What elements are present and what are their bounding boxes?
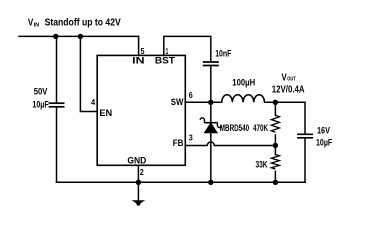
svg-text:OUT: OUT <box>287 77 296 83</box>
capacitor C3 16V 10uF output <box>297 134 313 138</box>
svg-text:IN: IN <box>34 23 40 29</box>
wire output cap bottom lead <box>304 138 306 182</box>
wire 33K top lead <box>274 146 276 155</box>
wire 33K bottom lead <box>274 171 276 182</box>
wire input cap bottom lead to ground rail <box>56 107 58 182</box>
node junction dot VIN-cap <box>53 34 58 39</box>
node junction dot divider bottom rail <box>273 180 278 185</box>
node junction dot VOUT <box>273 100 278 105</box>
svg-text:100µH: 100µH <box>232 78 255 89</box>
node junction dot FB divider <box>273 143 278 148</box>
svg-text:V: V <box>282 72 287 83</box>
svg-text:16V: 16V <box>317 125 330 136</box>
svg-text:470K: 470K <box>253 122 268 133</box>
wire 470K top lead <box>274 102 276 115</box>
wire diode branch SW to ground rail <box>210 102 212 182</box>
svg-text:10µF: 10µF <box>316 137 332 148</box>
wire FB line with hop over diode branch <box>185 142 275 146</box>
svg-text:10nF: 10nF <box>215 48 231 59</box>
wire 10nF top lead <box>210 36 212 61</box>
wire EN branch <box>80 36 97 111</box>
svg-text:EN: EN <box>99 107 112 118</box>
svg-text:10µF: 10µF <box>32 99 48 110</box>
node junction dot diode anode rail <box>208 180 213 185</box>
svg-text:MBRD540: MBRD540 <box>220 123 249 133</box>
wire BST pin1 up and right <box>164 36 211 55</box>
svg-text:3: 3 <box>189 132 193 142</box>
svg-text:BST: BST <box>155 55 175 66</box>
svg-text:SW: SW <box>171 96 184 107</box>
svg-text:33K: 33K <box>256 158 268 169</box>
wire SW to inductor <box>185 101 221 103</box>
svg-text:6: 6 <box>189 90 193 100</box>
wire 470K bottom lead <box>274 135 276 146</box>
resistor R1 470K <box>271 115 279 132</box>
svg-text:12V/0.4A: 12V/0.4A <box>272 84 305 95</box>
node label VIN standoff title <box>28 17 121 28</box>
op-amp U1 LT regulator IC body <box>97 55 185 165</box>
wire input cap top lead <box>56 36 58 102</box>
svg-text:FB: FB <box>173 137 184 148</box>
svg-text:Standoff up to 42V: Standoff up to 42V <box>45 17 122 28</box>
svg-text:GND: GND <box>127 155 146 166</box>
svg-text:IN: IN <box>132 55 145 66</box>
capacitor C2 10nF boost <box>203 62 219 66</box>
node junction dot GND pin rail <box>136 180 141 185</box>
node junction dot SW-diode-10nF <box>208 100 213 105</box>
resistor R2 33K <box>271 155 279 169</box>
svg-text:4: 4 <box>91 97 95 107</box>
wire pin5 drop to IC <box>138 36 140 55</box>
ground symbol <box>132 200 146 205</box>
wire GND pin2 drop <box>137 165 139 200</box>
capacitor C1 50V 10uF input <box>49 103 65 107</box>
svg-text:2: 2 <box>140 167 144 177</box>
wire inductor to output node and cap corner <box>265 102 306 134</box>
wire VIN top rail <box>19 35 139 37</box>
node label VOUT <box>282 72 297 83</box>
diode D1 MBRD540 schottky <box>200 118 221 133</box>
wire 10nF bottom lead <box>210 65 212 102</box>
wire ground rail <box>57 181 306 183</box>
svg-text:50V: 50V <box>34 86 48 97</box>
node junction dot VIN-EN <box>78 34 83 39</box>
inductor L1 100uH <box>222 95 265 103</box>
